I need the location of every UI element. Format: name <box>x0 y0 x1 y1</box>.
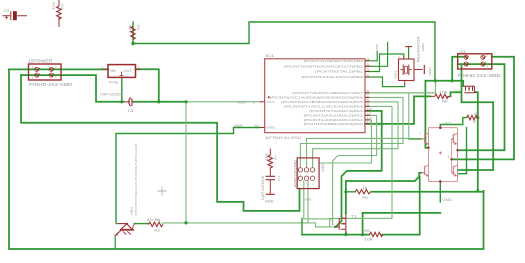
wire IC pin13 to R6 and MOSFET gate <box>365 92 461 124</box>
resonator U$1 <box>399 47 425 86</box>
svg-text:2: 2 <box>55 65 57 69</box>
svg-text:1k: 1k <box>362 186 368 190</box>
wire 5V rail to P-MOSFET source and J3 pin1 <box>425 57 466 86</box>
resistor R7 1k <box>467 115 478 119</box>
resistor R6 top 10k <box>430 94 450 98</box>
svg-text:3: 3 <box>32 75 34 79</box>
svg-text:2: 2 <box>102 65 104 69</box>
wire IC pin12 to ISP right <box>319 120 371 163</box>
svg-text:RESONATOR: RESONATOR <box>416 36 420 63</box>
bridge pin numbers <box>419 133 464 172</box>
svg-text:R7: R7 <box>473 120 479 124</box>
junction drain vertical on R9 line <box>476 189 479 192</box>
svg-text:1k: 1k <box>474 112 480 116</box>
wire R7 left staircase to bridge top node <box>440 118 466 128</box>
header J3 PINHD-2X2-SMD <box>458 54 492 69</box>
wire resonator gnd pin up to gnd bar <box>408 48 410 60</box>
svg-text:13: 13 <box>367 120 373 124</box>
wire bridge right chain vertical <box>458 128 467 174</box>
svg-text:10k: 10k <box>128 24 132 33</box>
svg-text:(PCINT2/AIN1/ADC2)PA2: (PCINT2/AIN1/ADC2)PA2 <box>304 114 364 118</box>
svg-text:U$2: U$2 <box>321 163 325 172</box>
svg-text:T2: T2 <box>445 122 451 126</box>
wire IC pin3 PB1 to resonator top pin <box>365 54 404 72</box>
resistor R4 vertical floating <box>57 0 62 27</box>
ISP tiny pin labels <box>300 164 315 186</box>
svg-text:CAP-US1206: CAP-US1206 <box>261 176 265 200</box>
svg-text:1: 1 <box>253 101 255 105</box>
svg-text:10: 10 <box>367 107 373 111</box>
wire J2 pin2 to regulator IN <box>9 68 108 70</box>
svg-text:AVRISPSMD: AVRISPSMD <box>293 159 297 188</box>
junction R3 net riser on 5V rail <box>434 79 437 82</box>
svg-text:(PCINT11/RESET/DW)PB3: (PCINT11/RESET/DW)PB3 <box>304 59 364 63</box>
svg-text:1: 1 <box>138 65 140 69</box>
wire R6b right end up to R9 line <box>382 177 420 235</box>
wire phototransistor emitter stub to bottom rail <box>114 236 116 249</box>
wire IC pin2 PB0 to resonator bottom pin <box>365 77 405 87</box>
svg-text:10k: 10k <box>264 152 268 161</box>
svg-text:R6: R6 <box>442 100 448 104</box>
wire regulator OUT down to VCC rail <box>136 69 159 102</box>
wire J2 pin4 to C3 left <box>21 75 124 102</box>
junction J3 pin1 riser on 5V rail <box>451 79 454 82</box>
svg-text:3: 3 <box>306 164 308 166</box>
wire IC pin6 fan to ISP header and to rail riser <box>365 81 436 93</box>
svg-text:(PCINT9/XTAL2)PB1: (PCINT9/XTAL2)PB1 <box>315 70 363 74</box>
svg-text:PINHD-2X2-SMD: PINHD-2X2-SMD <box>29 82 72 87</box>
junction VCC rail sense tap <box>184 100 187 103</box>
svg-text:GND: GND <box>303 198 312 202</box>
svg-text:GND: GND <box>267 126 276 130</box>
svg-text:C1: C1 <box>277 175 281 181</box>
svg-text:R2: R2 <box>154 229 160 233</box>
resistor R6 bottom <box>369 232 383 236</box>
wire J3 pin4 down to bridge top right <box>458 64 505 150</box>
svg-text:PINHD-2X2-SMD: PINHD-2X2-SMD <box>458 73 501 78</box>
resistor R1 vertical <box>268 149 273 173</box>
svg-text:10k: 10k <box>439 90 448 94</box>
IC1 internal pin labels <box>270 59 364 126</box>
svg-text:OUT: OUT <box>124 69 132 73</box>
IC1 pin stubs <box>260 61 370 128</box>
junction R6b loop on source rail <box>361 233 364 236</box>
wire net GND from J2 pin3 staircase to ISP header <box>21 75 300 211</box>
wire R9 left lead to T1 drain riser <box>346 191 355 193</box>
svg-text:GND: GND <box>421 42 425 51</box>
svg-text:J2POWER: J2POWER <box>28 58 53 63</box>
svg-text:R6: R6 <box>364 229 370 233</box>
svg-text:2: 2 <box>448 156 450 159</box>
IC1 pin numbers <box>367 57 373 124</box>
resistor R2 49.9k <box>148 222 163 226</box>
wire J3 pin2 down right side to bridge node 2 <box>453 57 514 160</box>
svg-text:(PCINT4/T1/SCL/USCK/ADC4)PA4: (PCINT4/T1/SCL/USCK/ADC4)PA4 <box>284 105 363 109</box>
wire IC pin8 fan to ISP header <box>313 102 398 167</box>
svg-text:1: 1 <box>420 167 422 170</box>
svg-text:1: 1 <box>32 65 34 69</box>
svg-text:C2: C2 <box>4 9 10 13</box>
wire R9 right long line to right risers <box>371 191 483 193</box>
junction T1 source on rail <box>344 233 347 236</box>
svg-text:R9: R9 <box>362 196 368 200</box>
wire thick source rail y234 with T1 source <box>302 233 369 235</box>
wire bridge node A feed vertical from 5V rail <box>425 81 428 148</box>
svg-text:6: 6 <box>312 184 314 186</box>
svg-text:(PCINT3/T0/ADC3)PA3: (PCINT3/T0/ADC3)PA3 <box>309 109 363 113</box>
wire VCC rail thin part to IC pin 1 <box>186 101 261 103</box>
junction sense line at R2 <box>184 221 187 224</box>
voltage regulator IC2 <box>104 65 141 78</box>
origin cross marker <box>158 187 167 196</box>
svg-text:14: 14 <box>254 124 259 128</box>
wire VCC rail thick part C3 to junction <box>134 101 187 103</box>
svg-text:PHOTOTRANSISTOR-NPN1206: PHOTOTRANSISTOR-NPN1206 <box>134 143 138 215</box>
svg-text:4: 4 <box>55 75 57 79</box>
wire T1 drain up and right to bridge bottom-left base <box>346 173 421 214</box>
junction regulator GND on rail <box>120 100 123 103</box>
svg-text:1: 1 <box>300 164 302 166</box>
wire regulator GND pin down to rail <box>121 77 123 101</box>
wire bridge bottom node to GND symbol <box>439 181 441 202</box>
capacitor C2 polarized top left <box>3 11 28 20</box>
junction R7 right at MOSFET drain <box>476 116 479 119</box>
svg-text:49.9k: 49.9k <box>147 218 162 222</box>
svg-text:T1: T1 <box>351 215 357 219</box>
wire rail elbow up at left end <box>301 218 303 234</box>
MOSFET T1 <box>335 215 346 233</box>
junction R3 bottom node <box>131 42 134 45</box>
svg-text:VCC: VCC <box>267 100 276 104</box>
wire J3 pin3 box loop to bridge bottom right <box>458 64 494 170</box>
wire IC pin4 RST stub <box>365 52 377 61</box>
H-bridge T2 transistor block <box>421 126 459 182</box>
svg-text:IN: IN <box>110 69 117 73</box>
svg-text:RST: RST <box>375 44 379 52</box>
svg-text:(PCINT7/ICP/OC0B/ADC7)PA7: (PCINT7/ICP/OC0B/ADC7)PA7 <box>292 91 363 95</box>
ISP header U$2 AVRISPSMD <box>297 158 319 189</box>
wire net VBAT from J2 pin1 down left side and bottom rail <box>9 69 484 249</box>
wire phototransistor to R2 left <box>134 223 148 225</box>
svg-text:IC1: IC1 <box>266 53 276 58</box>
header J2 PINHD-2X2-SMD <box>29 64 62 80</box>
wire ISP bottom pin chain <box>304 181 333 223</box>
svg-text:GND: GND <box>265 200 275 204</box>
resistor R3 vertical on wire <box>131 26 136 39</box>
svg-text:CAP-US1206: CAP-US1206 <box>100 92 123 96</box>
svg-text:(PCINT0/AREF/ADC0)PA0: (PCINT0/AREF/ADC0)PA0 <box>304 122 364 126</box>
junction regulator OUT on VCC rail <box>157 100 160 103</box>
wire IC pin10 to T1 gate via diagonal staircase <box>335 111 382 227</box>
svg-text:(PCINT6/OC1A/SDA/MOSI/DI/ADC6): (PCINT6/OC1A/SDA/MOSI/DI/ADC6)PA6 <box>270 96 364 100</box>
svg-text:m: m <box>116 82 119 84</box>
wire IC pin11 diagonal staircase down <box>333 115 377 224</box>
svg-text:ATTINY44-SSU: ATTINY44-SSU <box>266 135 302 140</box>
wire sense net thin from VCC junction down to R2 and to T1 gate <box>162 102 332 227</box>
svg-text:GND: GND <box>442 198 452 202</box>
svg-text:11: 11 <box>367 112 373 116</box>
svg-text:C3: C3 <box>128 109 134 113</box>
wire IC pin5 PB2 stub with vertical <box>365 43 388 67</box>
phototransistor U$3 <box>115 223 134 237</box>
wire R6b loop top horizontal under bridge <box>363 213 441 235</box>
svg-text:VCC: VCC <box>238 101 247 105</box>
wire P-MOSFET drain down through R7 right junction to R9 line <box>474 92 477 191</box>
svg-text:R4: R4 <box>61 3 65 9</box>
svg-text:2: 2 <box>300 184 302 186</box>
wire bridge top-left base feed from pin6 fan <box>409 138 421 140</box>
svg-text:5: 5 <box>312 164 314 166</box>
wire R3 top stub vertical <box>132 22 134 44</box>
svg-text:R1: R1 <box>274 154 278 160</box>
svg-text:4: 4 <box>419 133 421 136</box>
svg-text:U$1: U$1 <box>394 70 398 79</box>
svg-text:(PCINT10/INT0/OC0A/CKOUT)PB2: (PCINT10/INT0/OC0A/CKOUT)PB2 <box>284 65 363 69</box>
capacitor C3 <box>124 97 134 106</box>
svg-text:R3: R3 <box>136 24 140 30</box>
svg-text:10k: 10k <box>364 237 373 241</box>
resistor R9 <box>355 190 370 194</box>
IC1 ATTINY44 box <box>265 59 365 133</box>
junction R9 left at T1 drain <box>344 190 347 193</box>
svg-text:(PCINT8/XTAL1/CLKI)PB0: (PCINT8/XTAL1/CLKI)PB0 <box>301 75 363 79</box>
capacitor C1 with GND <box>266 173 276 195</box>
P-MOSFET near J3 <box>463 86 476 93</box>
wire IC pin7 fan to ISP header <box>300 97 403 166</box>
svg-text:GND: GND <box>234 124 244 128</box>
wire IC pin9 fan down to light chain <box>330 106 392 226</box>
svg-text:(PCINT5/OC1B/MISO/DO/ADC5)PA5: (PCINT5/OC1B/MISO/DO/ADC5)PA5 <box>281 100 363 104</box>
wire R3 net to top rail and right vertical <box>133 22 435 81</box>
wire GND pin14 of IC to phototransistor collector <box>116 128 260 224</box>
svg-text:GND: GND <box>428 66 432 75</box>
svg-text:10k: 10k <box>52 1 56 10</box>
